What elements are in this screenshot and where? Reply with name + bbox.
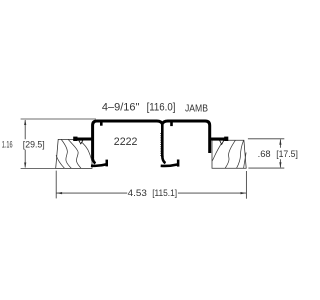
svg-text:JAMB: JAMB <box>185 103 208 114</box>
middle foot bar <box>161 164 178 166</box>
svg-text:[17.5]: [17.5] <box>276 149 298 160</box>
gasket fin right <box>220 140 224 144</box>
top run right with right wall <box>162 121 209 153</box>
profile left wall and top run to screw channel <box>93 121 163 158</box>
svg-text:4–9/16": 4–9/16" <box>102 102 140 114</box>
arrow bottom dim right <box>241 192 247 194</box>
svg-text:1.16: 1.16 <box>2 140 13 151</box>
right dim bottom extension line <box>248 167 284 169</box>
hook nub left <box>73 137 77 141</box>
bottom dim right extension line <box>245 171 247 199</box>
svg-text:2222: 2222 <box>114 136 138 148</box>
hook bar left <box>74 138 92 141</box>
wood block left <box>56 139 92 168</box>
arrow left dim up <box>24 120 26 125</box>
svg-text:[116.0]: [116.0] <box>147 102 176 114</box>
bottom dim left extension line <box>55 171 57 199</box>
wood grain right <box>212 141 223 162</box>
svg-text:.68: .68 <box>258 149 271 160</box>
jamb profile 2222 <box>74 121 228 167</box>
left dim line <box>24 120 26 168</box>
arrow left dim down <box>24 163 26 168</box>
wood block right <box>212 140 246 168</box>
hook bar right <box>210 138 228 141</box>
right dim line <box>279 139 281 167</box>
arrow bottom dim left <box>56 192 62 194</box>
wood grain left <box>61 140 71 169</box>
left dim bottom extension line <box>21 168 56 170</box>
tick middle <box>170 122 173 127</box>
hook nub right <box>224 137 228 141</box>
dimension lines <box>21 119 285 199</box>
svg-text:4.53: 4.53 <box>128 188 147 199</box>
svg-text:[115.1]: [115.1] <box>152 188 177 199</box>
gasket fin left <box>79 140 83 144</box>
left foot lip <box>106 160 109 167</box>
svg-text:[29.5]: [29.5] <box>23 140 45 151</box>
channel jog to middle foot <box>162 156 165 164</box>
middle foot lip <box>177 160 180 167</box>
left dim top extension line <box>21 118 96 120</box>
screw channel stem <box>161 123 164 157</box>
left foot bar <box>91 164 107 166</box>
right dim top extension line <box>248 138 284 140</box>
arrow right dim down <box>279 162 281 168</box>
arrow right dim up <box>279 139 281 145</box>
screw channel serration <box>160 133 162 157</box>
bottom dim line <box>57 192 247 194</box>
tick left <box>100 122 103 126</box>
left wall jog to foot <box>93 157 96 163</box>
